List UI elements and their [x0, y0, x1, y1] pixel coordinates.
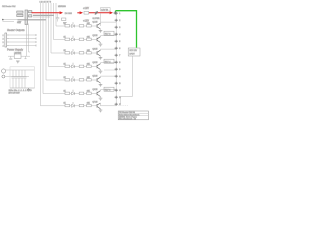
svg-text:6: 6 — [119, 48, 120, 50]
wire base — [91, 52, 97, 54]
wire emitter — [100, 109, 102, 110]
wire collector — [101, 103, 117, 106]
barrel jack J3 — [2, 69, 6, 73]
wire collector — [101, 90, 117, 91]
driver row 1 — [65, 13, 116, 32]
pin 5 — [115, 40, 118, 43]
wire — [75, 79, 80, 81]
svg-text:2: 2 — [119, 20, 120, 22]
wire — [9, 35, 36, 46]
ground — [27, 88, 30, 91]
wire — [8, 55, 30, 57]
wire drop 1 — [26, 24, 28, 57]
resistor network RN1 — [17, 11, 23, 13]
driver row 6 — [65, 87, 116, 100]
wire — [84, 93, 87, 95]
wire emitter — [100, 70, 102, 72]
connector J2 — [5, 33, 7, 47]
resistor R14 — [79, 104, 84, 106]
svg-text:RLY 12V: RLY 12V — [130, 50, 138, 52]
pin 4 — [115, 33, 118, 36]
switch S1 — [95, 11, 98, 14]
fuse F1 — [84, 12, 89, 15]
capacitor C4 — [18, 70, 21, 88]
wire bus line 5 — [46, 3, 65, 80]
wire emitter — [100, 97, 102, 99]
svg-text:Q7 2N: Q7 2N — [93, 102, 99, 104]
resistor R12 — [79, 79, 84, 81]
resistor R13 — [79, 92, 84, 94]
wire base — [91, 93, 97, 95]
svg-text:Q1 2N: Q1 2N — [93, 22, 99, 24]
wire bus line 7 — [41, 3, 66, 106]
wire — [75, 39, 80, 41]
ground — [99, 110, 103, 112]
pin 12 — [115, 89, 118, 92]
LED D3 — [72, 49, 75, 54]
wire collector — [101, 49, 117, 50]
capacitor C5 — [21, 70, 24, 88]
capacitor C1 — [9, 56, 12, 59]
svg-text:Power Supply: Power Supply — [7, 47, 24, 51]
LED D4 — [72, 63, 75, 68]
wire emitter — [100, 83, 102, 85]
wire dashed — [113, 105, 129, 107]
wire — [70, 105, 72, 107]
svg-text:MBR360: MBR360 — [58, 6, 67, 8]
net ticks — [35, 34, 37, 47]
resistor R10 — [79, 52, 84, 54]
wire — [5, 70, 34, 77]
connector J1 — [25, 10, 28, 25]
resistor R19 — [87, 79, 92, 81]
svg-text:RLY 4: RLY 4 — [105, 61, 111, 63]
svg-text:Q4 2N: Q4 2N — [93, 62, 99, 64]
resistor R17 — [87, 52, 92, 54]
label box 12V — [101, 8, 111, 11]
resistor R3 — [65, 52, 70, 54]
svg-text:1: 1 — [3, 35, 4, 37]
ground — [99, 44, 103, 46]
wire — [84, 39, 87, 41]
svg-text:100u 10u .1 .1 .1 .1 GND: 100u 10u .1 .1 .1 .1 GND — [9, 90, 33, 92]
wire emitter — [100, 29, 102, 31]
svg-text:7: 7 — [119, 55, 120, 57]
svg-text:Q5 2N: Q5 2N — [93, 76, 99, 78]
svg-text:5: 5 — [119, 41, 120, 43]
filter box — [10, 67, 35, 88]
resistor R15 — [87, 25, 92, 27]
wire — [70, 93, 72, 95]
LED D1 — [72, 22, 75, 27]
wire collector — [101, 36, 117, 37]
wire — [75, 93, 80, 95]
wire emitter — [100, 43, 102, 45]
svg-text:Q3 2N: Q3 2N — [93, 49, 99, 51]
resistor R11 — [79, 65, 84, 67]
pin 3 — [115, 26, 118, 29]
svg-text:Q6 2N: Q6 2N — [93, 89, 99, 91]
svg-text:RLY 6: RLY 6 — [105, 89, 111, 91]
svg-text:4: 4 — [119, 34, 120, 36]
pin 7 — [115, 54, 118, 57]
transistor Q5 — [97, 77, 100, 83]
wire — [75, 25, 80, 27]
svg-text:+12V: +12V — [83, 7, 89, 10]
wire base — [91, 105, 97, 107]
output rail wire — [115, 11, 117, 104]
wire — [75, 105, 80, 107]
ground — [99, 31, 103, 33]
wire base — [91, 66, 97, 68]
resistor R18 — [87, 65, 92, 67]
capacitor C3 — [15, 70, 18, 88]
wire — [84, 105, 87, 107]
resistor R7 — [65, 104, 70, 106]
ground — [99, 71, 103, 73]
pin 6 — [115, 47, 118, 50]
wire — [70, 39, 72, 41]
pin 8 — [115, 61, 118, 64]
svg-text:1 2 3 4 5 6 7 8: 1 2 3 4 5 6 7 8 — [40, 2, 52, 4]
wire collector — [101, 76, 117, 77]
ground — [16, 61, 20, 63]
pin 11 — [115, 82, 118, 85]
capacitor C8 — [56, 14, 60, 22]
svg-text:9: 9 — [119, 69, 120, 71]
svg-text:1: 1 — [119, 13, 120, 15]
relay label box K2 — [104, 31, 114, 35]
svg-text:D8 360: D8 360 — [65, 13, 73, 15]
wire — [84, 79, 87, 81]
transistor Q7 — [97, 103, 100, 109]
driver row 4 — [65, 59, 116, 73]
svg-text:2: 2 — [3, 39, 4, 41]
wire — [84, 66, 87, 68]
svg-text:8: 8 — [119, 62, 120, 64]
wire — [121, 56, 133, 104]
pin 2 — [115, 19, 118, 22]
relay label box K6 — [104, 87, 114, 91]
resistor R16 — [87, 38, 92, 40]
wire base — [91, 25, 97, 27]
svg-text:3: 3 — [3, 42, 4, 44]
ground — [99, 58, 103, 60]
wire drop 2 — [29, 24, 30, 53]
resistor R20 — [62, 18, 66, 20]
wire collector — [101, 13, 117, 26]
driver row 3 — [65, 49, 116, 60]
resistor R21 — [87, 104, 92, 106]
wire base — [91, 79, 97, 81]
wire collector — [101, 63, 117, 64]
wire bus line 1 — [56, 3, 65, 26]
wire — [3, 20, 18, 22]
svg-text:O2 Heater Ctrl: O2 Heater Ctrl — [2, 5, 16, 8]
ground — [63, 23, 67, 25]
resistor R2 — [65, 38, 70, 40]
green stub — [115, 11, 117, 14]
svg-text:25V 16V 50V: 25V 16V 50V — [9, 93, 21, 95]
wire — [75, 52, 80, 54]
diode D1 — [24, 56, 26, 59]
wire stub — [104, 69, 116, 71]
svg-text:4: 4 — [3, 46, 4, 48]
wire — [70, 66, 72, 68]
relay label box K4 — [104, 59, 114, 63]
LED D7 — [72, 102, 75, 107]
capacitor C2 — [12, 70, 15, 88]
svg-text:Q2 2N: Q2 2N — [93, 35, 99, 37]
red net +12V wire — [32, 12, 110, 14]
wire base — [91, 39, 97, 41]
svg-text:DPDT: DPDT — [130, 54, 136, 56]
svg-text:3: 3 — [119, 27, 120, 29]
wire — [84, 52, 87, 54]
svg-text:S1 PWR: S1 PWR — [93, 18, 101, 20]
capacitor C6 — [24, 70, 27, 88]
LED D6 — [72, 90, 75, 95]
transistor Q2 — [97, 37, 100, 43]
pin 10 — [115, 75, 118, 78]
title block — [118, 111, 148, 121]
svg-text:File: o2heater.sch A4: File: o2heater.sch A4 — [119, 118, 136, 121]
pin 13 — [115, 96, 118, 99]
regulator U2 — [14, 54, 21, 58]
ground — [99, 98, 103, 100]
transistor Q1 — [97, 23, 100, 29]
ground — [99, 85, 103, 87]
transistor Q3 — [97, 50, 100, 56]
diode D10 — [114, 12, 117, 15]
wire bus line 4 — [49, 3, 66, 67]
resistor R5 — [65, 79, 70, 81]
wire — [75, 66, 80, 68]
resistor R9 — [79, 38, 84, 40]
wire emitter — [100, 56, 102, 58]
red arrowheads — [60, 11, 113, 14]
pin 14 — [115, 103, 118, 106]
pin 9 — [115, 68, 118, 71]
pin 1 — [115, 12, 118, 15]
svg-text:LM7805: LM7805 — [14, 53, 22, 55]
wire — [84, 25, 87, 27]
wire to bus — [33, 14, 54, 16]
resistor R6 — [65, 92, 70, 94]
resistor R8 — [79, 25, 84, 27]
wire bus line 2 — [54, 3, 66, 40]
LED D5 — [72, 76, 75, 81]
driver row 7 — [65, 102, 116, 112]
wire bus line 6 — [43, 3, 65, 94]
driver row 5 — [65, 76, 116, 87]
green net wire — [116, 11, 137, 48]
resistor RN2 — [29, 11, 32, 13]
resistor R1 — [65, 25, 70, 27]
wire — [70, 52, 72, 54]
svg-text:Heater Outputs: Heater Outputs — [7, 28, 25, 32]
transistor Q4 — [97, 64, 100, 70]
resistor R4 — [65, 65, 70, 67]
driver row 2 — [65, 31, 116, 46]
transistor Q6 — [97, 91, 100, 97]
svg-text:12V IN: 12V IN — [101, 9, 108, 11]
J2 pins — [7, 35, 9, 46]
resistor R20 — [87, 92, 92, 94]
wire — [70, 79, 72, 81]
wire bus line 3 — [51, 3, 65, 53]
node — [2, 19, 4, 21]
LED D2 — [72, 36, 75, 41]
svg-text:RLY 2: RLY 2 — [105, 33, 111, 35]
output pins — [115, 12, 118, 106]
ground rail — [10, 87, 35, 89]
relay K7 — [128, 48, 140, 56]
tick marks under cluster — [19, 22, 22, 24]
wire — [70, 25, 72, 27]
